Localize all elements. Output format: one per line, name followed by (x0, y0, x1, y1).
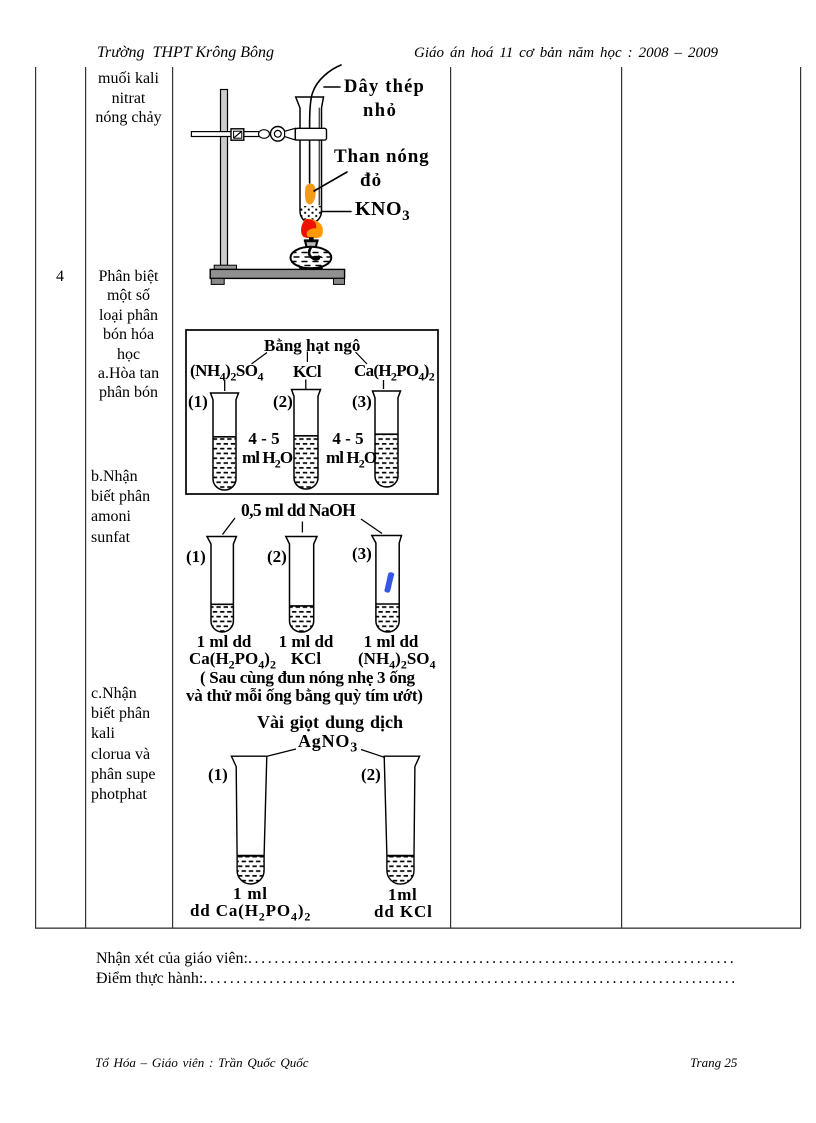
KNO3 stipple (300, 206, 322, 223)
wick cup rim (304, 239, 319, 241)
d3 tube 3 liquid (376, 604, 399, 632)
col2 text: b.Nhan biet phan amoni sunfat (91, 467, 150, 548)
label (2) d3 (267, 547, 287, 567)
label AgNO3 (298, 731, 358, 757)
table vertical line x=35 (35, 67, 36, 928)
d3 tube 2 liquid (290, 606, 314, 632)
label (NH4)2SO4 (190, 361, 263, 384)
pointer to Than nong do (314, 172, 347, 191)
d4 tube 1 liquid (237, 856, 264, 884)
nut on arm (259, 130, 270, 139)
pointer right (361, 519, 382, 534)
tick to tube3 (383, 380, 385, 389)
label 1 ml dd / (NH4)2SO4 (363, 632, 419, 652)
label dd Ca(H2PO4)2 (190, 901, 311, 924)
tube 3 outline (373, 391, 401, 487)
label 4-5 ml H2O left (238, 430, 290, 448)
d4 tube 2 outline (384, 756, 419, 884)
d4 tube 1 outline (231, 756, 266, 884)
label 1 ml left (233, 884, 268, 904)
blue litmus in tube 3 (384, 572, 394, 592)
stand foot left (211, 278, 224, 284)
connector left diagonal (252, 353, 268, 365)
stand base (210, 269, 344, 278)
pointer dash to Day thep (324, 86, 340, 88)
table vertical line x=448 (450, 67, 451, 928)
label Bang hat ngo (264, 336, 360, 356)
charcoal blob (305, 184, 316, 205)
label (2) d2 (273, 392, 293, 412)
tube 2 liquid (294, 436, 318, 489)
label (3) d2 (352, 392, 372, 412)
d3 tube 1 liquid (211, 604, 233, 632)
label 4-5 ml H2O right (322, 430, 374, 448)
tick to tube2 (305, 380, 307, 390)
rod ribbed foot (214, 265, 236, 269)
label (1) d3 (186, 547, 206, 567)
clamp block at rod (231, 129, 244, 140)
lamp body (291, 247, 332, 269)
lamp wick inside (309, 248, 318, 259)
wire (310, 65, 341, 183)
bottom notes (96, 950, 737, 968)
tube 1 outline (211, 393, 239, 490)
table vertical line x=172 (172, 67, 173, 928)
connector center vertical (306, 352, 308, 363)
stand foot right (334, 278, 345, 284)
pointer left (223, 518, 236, 535)
header right (414, 45, 718, 62)
stand rod (221, 90, 228, 266)
label (3) d3 (352, 544, 372, 564)
clamp arm (191, 132, 262, 137)
wick stem (309, 237, 314, 240)
clamp holder block over tube (295, 128, 326, 140)
col2 text: phan biet ... (85, 267, 172, 403)
label Vai giot dung dich (257, 712, 403, 733)
label Ca(H2PO4)2 (354, 361, 434, 384)
label 0,5 ml dd NaOH (241, 500, 355, 521)
table vertical line x=85 (85, 67, 86, 928)
test tube 1 (apparatus) (296, 97, 324, 223)
d3 tube 2 outline (286, 537, 317, 633)
wick cup body (306, 242, 317, 247)
flame inner orange swirl (307, 228, 321, 237)
label 1 ml dd / Ca(H2PO4)2 (196, 632, 252, 652)
pointer right (361, 750, 385, 758)
label KNO3 (355, 198, 410, 225)
note line 2 (186, 686, 423, 706)
note line 1 (200, 668, 415, 688)
pointer center (301, 522, 303, 533)
label Than nong do (334, 146, 429, 168)
col2 text: c.Nhan biet ... (91, 684, 155, 805)
knob (271, 127, 286, 142)
taper (285, 128, 296, 140)
pointer to KNO3 (322, 211, 352, 213)
d4 tube 2 liquid (387, 856, 414, 884)
d3 tube 1 outline (207, 537, 236, 632)
d3 tube 3 outline (372, 536, 402, 633)
label Day thep nho (344, 77, 425, 98)
tube 1 liquid (213, 437, 236, 490)
tube 3 liquid (375, 434, 398, 487)
table vertical line x=800 (800, 67, 801, 928)
label (1) d4 (208, 765, 228, 785)
label (2) d4 (361, 765, 381, 785)
tick to tube1 (224, 380, 226, 391)
label 1ml right (388, 885, 417, 905)
label (1) d2 (188, 392, 208, 412)
tube inner right wall (318, 108, 320, 205)
lamp liquid dashes (291, 253, 331, 266)
pointer left (266, 749, 296, 757)
table vertical line x=621 (621, 67, 622, 928)
header left (97, 44, 274, 62)
col1: row number 4 (35, 268, 85, 286)
col2 text: muoi kali nitrat nong chay (85, 69, 172, 128)
flame: red part (301, 219, 316, 238)
table bottom line (35, 928, 801, 929)
label 1 ml dd / KCl (278, 632, 334, 652)
label KCl (293, 362, 321, 382)
lamp shadow on base (299, 267, 322, 269)
footer (95, 1055, 309, 1071)
tube 2 outline (292, 390, 321, 490)
flame: orange body (301, 219, 323, 238)
label dd KCl (374, 902, 433, 922)
box frame (186, 330, 438, 494)
lamp neck lines (306, 247, 308, 250)
connector right diagonal (356, 352, 368, 364)
